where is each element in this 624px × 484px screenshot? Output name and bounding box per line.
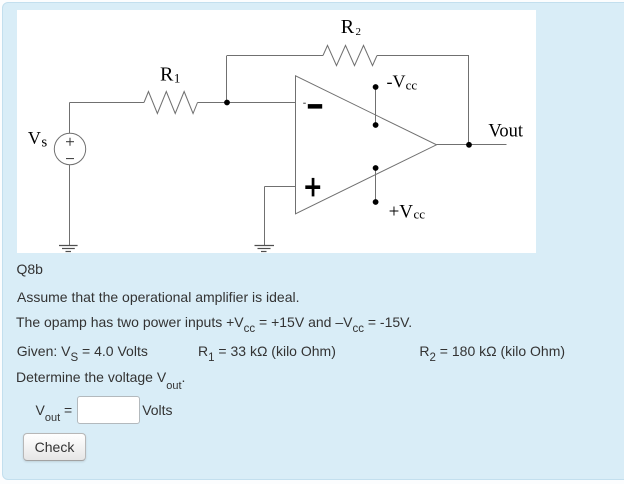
input box (77, 396, 140, 424)
source Vs circle (54, 133, 85, 164)
text line given R1 (198, 344, 336, 360)
power dots +Vcc (373, 165, 379, 171)
wire feedback up from junction (226, 56, 228, 103)
svg-text:2: 2 (356, 26, 362, 38)
wire Vs bottom vertical (69, 165, 71, 246)
wire top left to R2 (227, 55, 323, 57)
text line opamp power (16, 315, 412, 331)
node output junction dot (466, 142, 472, 148)
text line assume (17, 290, 299, 304)
svg-text:cc: cc (406, 78, 418, 93)
text line given Vs (17, 344, 148, 360)
wire power upper segment (375, 87, 377, 125)
text line given R2 (419, 344, 565, 360)
svg-text:cc: cc (414, 206, 426, 221)
ground for plus input (255, 246, 275, 252)
resistor R2 (323, 45, 377, 65)
svg-text:V: V (28, 128, 41, 148)
svg-text:1: 1 (174, 71, 181, 86)
op-amp U1 triangle (296, 76, 437, 214)
plus sign inside Vs (66, 138, 74, 146)
schematic white box (17, 10, 536, 253)
text Volts (142, 403, 172, 417)
wire input left segment (70, 102, 145, 104)
text Q8b (17, 262, 43, 276)
resistor R1 (144, 92, 198, 114)
minus sign inside Vs (66, 158, 74, 160)
wire R2 to right corner (377, 55, 469, 57)
node junction dot at R1 output (224, 100, 230, 106)
svg-text:Vout: Vout (488, 122, 523, 142)
text line determine (16, 370, 185, 386)
ground for Vs (59, 246, 78, 252)
svg-text:s: s (41, 134, 47, 150)
svg-text:R: R (341, 16, 355, 38)
svg-text:+V: +V (389, 201, 414, 222)
op-amp minus input symbol (308, 104, 322, 109)
wire feedback down to output (468, 56, 470, 145)
check button (23, 433, 86, 461)
wire Vs top vertical (69, 103, 71, 134)
op-amp plus input symbol (305, 185, 320, 189)
svg-text:-V: -V (387, 72, 406, 92)
wire power lower segment (375, 168, 377, 202)
wire plus input horizontal (265, 186, 296, 188)
wire R1 to junction to op-amp minus (198, 102, 296, 104)
wire plus input vertical down (264, 187, 266, 246)
text Vout = (36, 403, 73, 419)
svg-text:R: R (160, 64, 174, 86)
power dots -Vcc (373, 84, 379, 90)
wire output (437, 144, 507, 146)
